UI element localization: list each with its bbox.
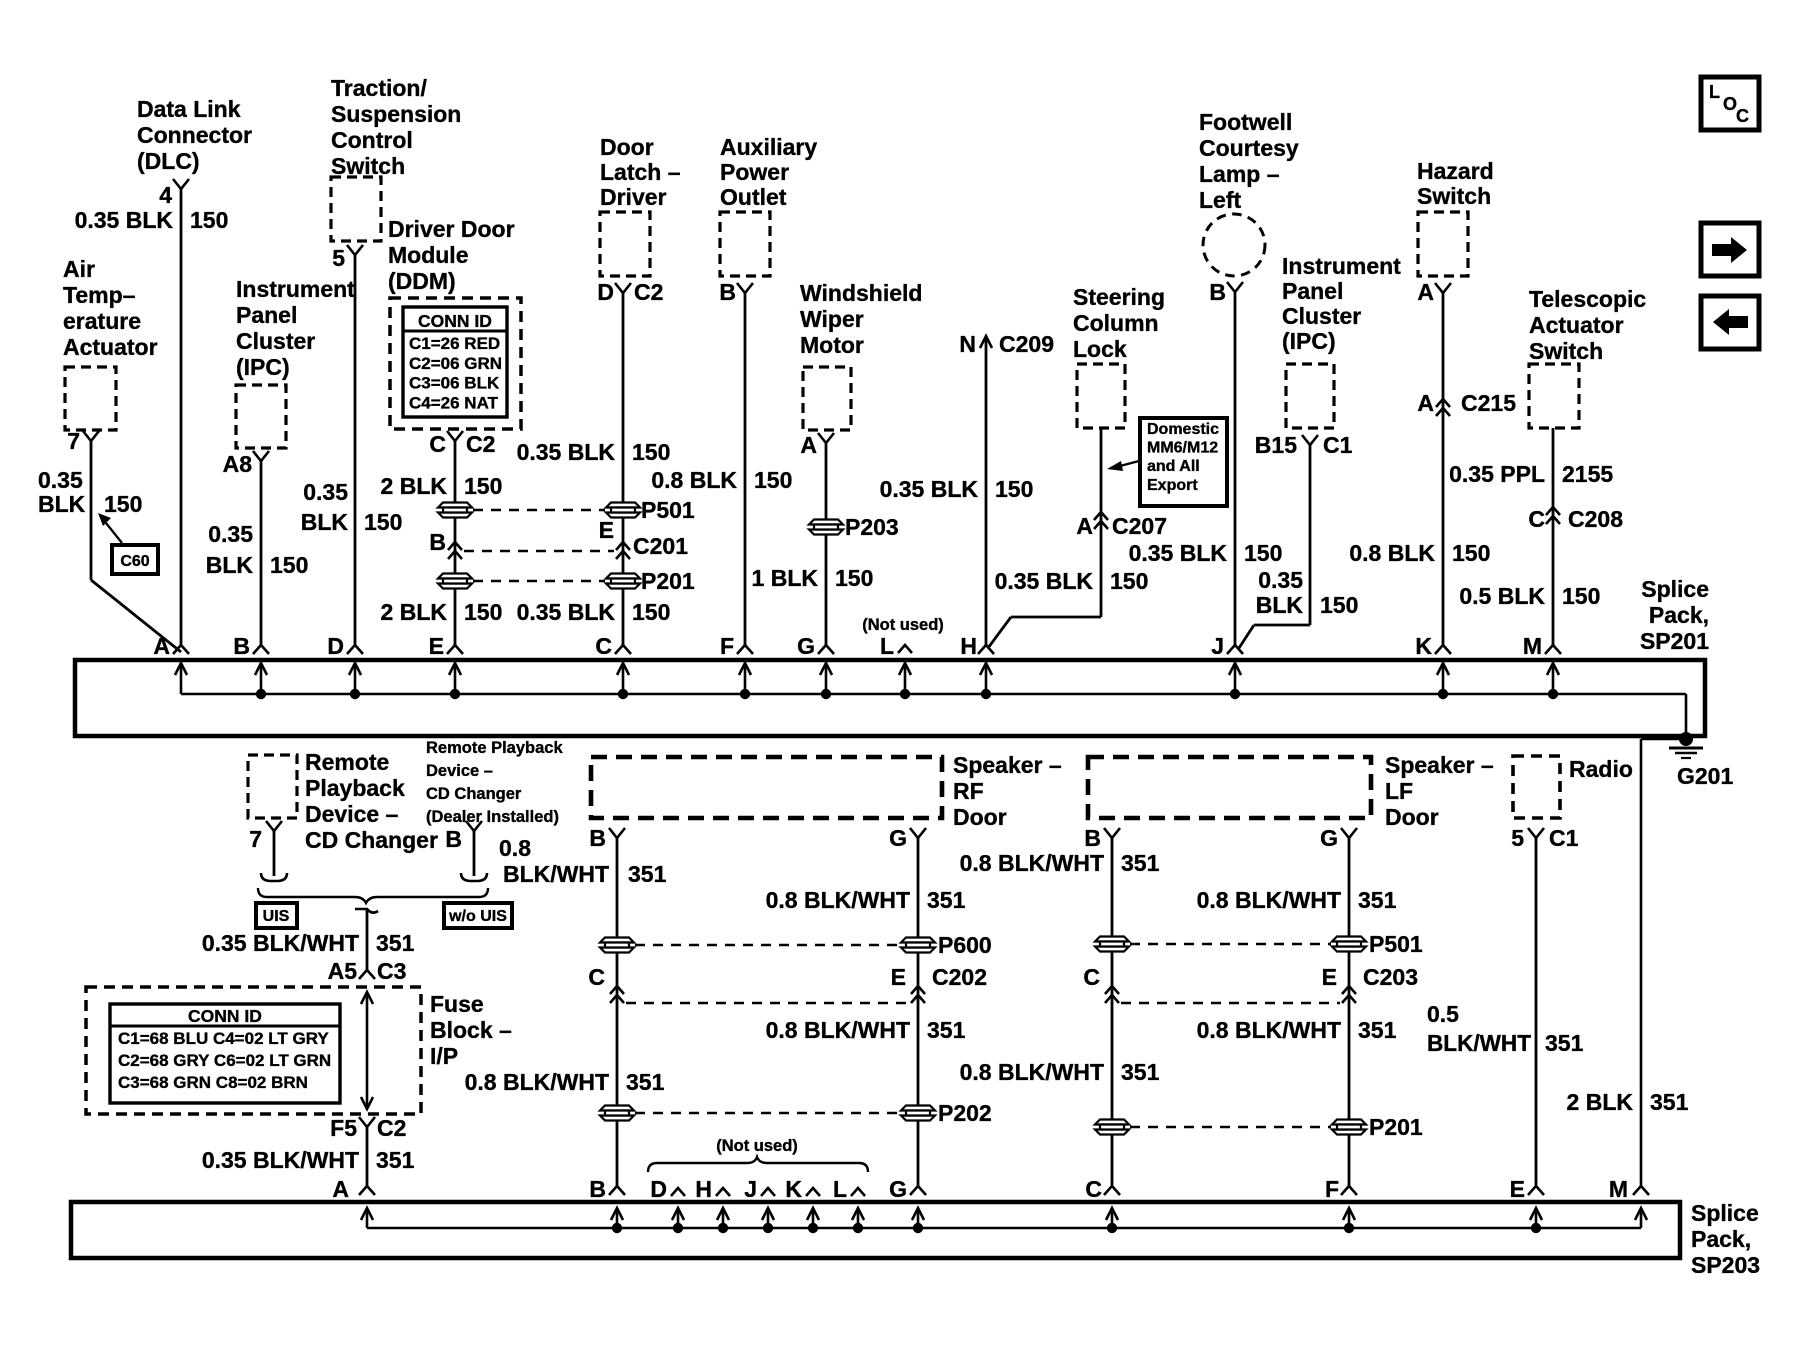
svg-text:Control: Control — [331, 127, 413, 153]
connector C207 pin A — [1094, 512, 1108, 520]
svg-text:C3=68 GRN C8=02 BRN: C3=68 GRN C8=02 BRN — [118, 1073, 308, 1092]
svg-text:D: D — [597, 279, 614, 305]
steering column lock box — [1077, 364, 1125, 428]
svg-text:Steering: Steering — [1073, 284, 1165, 310]
svg-text:G201: G201 — [1677, 763, 1733, 789]
svg-text:0.8 BLK/WHT: 0.8 BLK/WHT — [766, 887, 910, 913]
svg-text:351: 351 — [626, 1069, 665, 1095]
dashed pairing line P600 — [635, 944, 900, 946]
svg-text:0.35: 0.35 — [208, 521, 253, 547]
svg-text:351: 351 — [1121, 850, 1160, 876]
svg-text:0.35: 0.35 — [303, 479, 348, 505]
component: Speaker - RF Door box — [591, 757, 942, 818]
svg-text:5: 5 — [1511, 825, 1524, 851]
brace over not-used terminals — [648, 1157, 868, 1172]
svg-text:A: A — [153, 633, 170, 659]
svg-text:C201: C201 — [633, 533, 688, 559]
svg-text:150: 150 — [835, 565, 873, 591]
svg-text:5: 5 — [332, 245, 345, 271]
svg-text:C60: C60 — [120, 553, 149, 570]
svg-text:Door: Door — [953, 804, 1007, 830]
wire ckt351 to SP203-M — [1640, 739, 1643, 1186]
svg-text:351: 351 — [1358, 1017, 1397, 1043]
svg-text:Hazard: Hazard — [1417, 158, 1494, 184]
wire diagonal to node H — [988, 617, 1011, 648]
svg-text:150: 150 — [1110, 568, 1148, 594]
svg-text:Splice: Splice — [1691, 1200, 1759, 1226]
svg-text:Playback: Playback — [305, 775, 405, 801]
svg-text:RF: RF — [953, 778, 984, 804]
svg-text:0.35 BLK: 0.35 BLK — [75, 207, 174, 233]
dashed pairing line P202 — [635, 1112, 900, 1114]
svg-text:F: F — [1325, 1176, 1339, 1202]
svg-text:150: 150 — [190, 207, 228, 233]
pigtail terminal (w/o UIS) — [461, 873, 487, 881]
svg-text:Driver: Driver — [600, 184, 667, 210]
svg-text:(IPC): (IPC) — [1282, 328, 1336, 354]
svg-text:Temp–: Temp– — [63, 282, 136, 308]
telescopic actuator switch box — [1529, 364, 1579, 428]
svg-text:I/P: I/P — [430, 1043, 458, 1069]
svg-text:J: J — [744, 1176, 757, 1202]
grommet P600 right half — [901, 938, 935, 943]
connector C203 pin C — [1105, 986, 1119, 994]
svg-text:0.35: 0.35 — [1258, 567, 1303, 593]
svg-text:Actuator: Actuator — [1529, 312, 1624, 338]
svg-text:Latch –: Latch – — [600, 159, 681, 185]
wire cap below brace — [355, 909, 378, 913]
svg-text:Radio: Radio — [1569, 756, 1633, 782]
svg-text:B: B — [719, 279, 736, 305]
connector C60 callout box — [112, 545, 158, 574]
wire pigtail UIS — [273, 831, 276, 876]
dashed pairing line C203 — [1121, 1002, 1340, 1004]
svg-text:Speaker –: Speaker – — [1385, 752, 1494, 778]
svg-text:150: 150 — [632, 599, 670, 625]
footwell courtesy lamp circle — [1203, 214, 1265, 276]
wire ckt150 traction switch to SP201-D — [354, 255, 357, 645]
connector C201 left half pin B — [448, 542, 462, 550]
svg-text:0.8 BLK: 0.8 BLK — [1349, 540, 1435, 566]
grommet P501 right half — [606, 503, 640, 508]
svg-text:(IPC): (IPC) — [236, 354, 290, 380]
dashed pairing line C202 — [626, 1002, 909, 1004]
svg-text:150: 150 — [464, 599, 502, 625]
wire ckt351 LF speaker B to SP203-C — [1111, 838, 1114, 1186]
svg-text:E: E — [1322, 964, 1337, 990]
svg-text:C2: C2 — [466, 431, 495, 457]
svg-text:Instrument: Instrument — [1282, 253, 1401, 279]
wire ckt150 steering column lock — [1100, 428, 1103, 617]
svg-text:K: K — [1415, 633, 1432, 659]
svg-text:Panel: Panel — [236, 302, 297, 328]
svg-text:0.35 BLK: 0.35 BLK — [517, 599, 616, 625]
grommet P201 left half — [438, 574, 472, 579]
svg-text:C207: C207 — [1112, 513, 1167, 539]
dashed pairing line C201 — [464, 550, 614, 552]
svg-text:Auxiliary: Auxiliary — [720, 134, 817, 160]
svg-text:2 BLK: 2 BLK — [381, 473, 448, 499]
traction/suspension control switch box — [331, 177, 381, 241]
svg-text:M: M — [1523, 633, 1542, 659]
svg-text:B: B — [589, 1176, 606, 1202]
svg-text:Door: Door — [1385, 804, 1439, 830]
wire ckt351 LF speaker G to SP203-F — [1348, 838, 1351, 1186]
svg-text:G: G — [889, 1176, 907, 1202]
svg-text:Module: Module — [388, 242, 469, 268]
wire ckt150 aux power outlet to SP201-F — [744, 293, 747, 645]
svg-text:(Not used): (Not used) — [716, 1137, 798, 1155]
svg-text:0.8 BLK/WHT: 0.8 BLK/WHT — [465, 1069, 609, 1095]
svg-text:B15: B15 — [1255, 432, 1297, 458]
brace joining alternative pigtails — [258, 888, 488, 903]
component: Radio box — [1513, 756, 1560, 818]
svg-text:G: G — [889, 825, 907, 851]
svg-text:Switch: Switch — [331, 153, 405, 179]
connector C202 pin C — [610, 986, 624, 994]
wire jog horizontal — [1011, 616, 1101, 619]
svg-text:C209: C209 — [999, 331, 1054, 357]
svg-text:Actuator: Actuator — [63, 334, 158, 360]
svg-text:M: M — [1609, 1176, 1628, 1202]
IPC right box — [1286, 364, 1334, 428]
wire ckt150 wiper motor to SP201-G — [825, 443, 828, 645]
grommet P201 right half — [606, 574, 640, 579]
ground G201 — [1679, 732, 1693, 746]
svg-text:Remote: Remote — [305, 749, 389, 775]
svg-text:SP203: SP203 — [1691, 1252, 1760, 1278]
svg-text:A: A — [1076, 513, 1093, 539]
svg-text:L: L — [833, 1176, 847, 1202]
svg-text:C: C — [1085, 1176, 1102, 1202]
svg-text:0.8 BLK/WHT: 0.8 BLK/WHT — [960, 1059, 1104, 1085]
svg-text:C: C — [595, 633, 612, 659]
svg-text:0.8 BLK/WHT: 0.8 BLK/WHT — [1197, 887, 1341, 913]
SP203 internal bus wire — [367, 1227, 1641, 1230]
hazard switch box — [1418, 212, 1468, 276]
dashed pairing line P501 — [473, 509, 605, 511]
svg-text:and All: and All — [1147, 458, 1200, 475]
svg-text:150: 150 — [754, 467, 792, 493]
svg-text:Cluster: Cluster — [236, 328, 315, 354]
svg-text:150: 150 — [995, 476, 1033, 502]
wire ckt351 from G201 junction — [1641, 738, 1686, 741]
svg-text:Export: Export — [1147, 477, 1198, 494]
svg-text:(DDM): (DDM) — [388, 268, 456, 294]
svg-text:2 BLK: 2 BLK — [1567, 1089, 1634, 1115]
svg-text:150: 150 — [464, 473, 502, 499]
svg-text:H: H — [695, 1176, 712, 1202]
wire ckt2155/150 telescopic switch to SP201-M — [1552, 428, 1555, 645]
DDM box — [390, 298, 521, 429]
svg-text:0.35 PPL: 0.35 PPL — [1449, 461, 1545, 487]
svg-text:B: B — [1209, 279, 1226, 305]
svg-text:150: 150 — [104, 491, 142, 517]
wire ckt150 air temp actuator — [90, 441, 93, 580]
auxiliary power outlet box — [720, 212, 770, 276]
svg-text:0.35 BLK: 0.35 BLK — [1129, 540, 1228, 566]
wire ckt351 RF speaker B to SP203-B — [616, 838, 619, 1186]
remote playback device box — [248, 755, 297, 818]
svg-text:B: B — [233, 633, 250, 659]
svg-text:Lock: Lock — [1073, 336, 1127, 362]
svg-text:CONN ID: CONN ID — [418, 311, 492, 331]
svg-text:J: J — [1211, 633, 1224, 659]
wire ckt150 footwell lamp to SP201-J — [1234, 292, 1237, 645]
svg-text:351: 351 — [1358, 887, 1397, 913]
svg-text:MM6/M12: MM6/M12 — [1147, 440, 1218, 457]
svg-text:w/o UIS: w/o UIS — [448, 908, 507, 925]
svg-text:150: 150 — [1562, 583, 1600, 609]
svg-text:C2: C2 — [634, 279, 663, 305]
svg-text:Door: Door — [600, 134, 654, 160]
svg-text:C4=26 NAT: C4=26 NAT — [409, 393, 499, 412]
svg-text:Device –: Device – — [305, 801, 399, 827]
wire ckt351 fuse block to SP203-A — [366, 1127, 369, 1186]
svg-text:BLK/WHT: BLK/WHT — [503, 861, 609, 887]
svg-text:0.35 BLK/WHT: 0.35 BLK/WHT — [202, 930, 359, 956]
svg-text:150: 150 — [1452, 540, 1490, 566]
svg-text:BLK: BLK — [206, 552, 254, 578]
svg-text:150: 150 — [364, 509, 402, 535]
svg-text:C2: C2 — [377, 1115, 406, 1141]
svg-text:C3: C3 — [377, 958, 406, 984]
svg-text:Driver Door: Driver Door — [388, 216, 515, 242]
svg-text:B: B — [445, 826, 462, 852]
svg-text:O: O — [1723, 94, 1737, 114]
svg-text:C1=68 BLU C4=02 LT GRY: C1=68 BLU C4=02 LT GRY — [118, 1029, 329, 1048]
svg-text:K: K — [785, 1176, 802, 1202]
svg-text:351: 351 — [376, 930, 415, 956]
svg-text:P600: P600 — [938, 932, 992, 958]
svg-text:351: 351 — [1545, 1030, 1584, 1056]
grommet P501 left half — [1095, 937, 1129, 942]
svg-text:C1=26 RED: C1=26 RED — [409, 334, 500, 353]
svg-text:C202: C202 — [932, 964, 987, 990]
svg-text:150: 150 — [1244, 540, 1282, 566]
svg-text:E: E — [1510, 1176, 1525, 1202]
svg-text:0.35 BLK: 0.35 BLK — [880, 476, 979, 502]
svg-text:Column: Column — [1073, 310, 1159, 336]
windshield wiper motor box — [803, 367, 851, 430]
svg-text:Cluster: Cluster — [1282, 303, 1361, 329]
svg-text:P501: P501 — [641, 497, 695, 523]
svg-text:Switch: Switch — [1417, 183, 1491, 209]
svg-text:L: L — [1709, 82, 1720, 102]
DDM CONN ID table — [403, 307, 507, 417]
svg-text:7: 7 — [67, 428, 80, 454]
wire pigtail w/o UIS — [473, 831, 476, 876]
splice pack SP203 box — [71, 1202, 1680, 1258]
SP201 internal bus wire — [181, 693, 1686, 696]
wire ckt150 C209 to SP201-H — [985, 336, 988, 645]
svg-text:P202: P202 — [938, 1100, 992, 1126]
UIS callout box — [256, 903, 297, 928]
svg-text:UIS: UIS — [263, 908, 290, 925]
connector C203 pin E — [1342, 986, 1356, 994]
svg-text:A: A — [1417, 279, 1434, 305]
dashed pairing line P501 lower — [1130, 943, 1331, 945]
svg-text:G: G — [797, 633, 815, 659]
svg-text:2 BLK: 2 BLK — [381, 599, 448, 625]
svg-text:2155: 2155 — [1562, 461, 1613, 487]
Domestic MM6/M12 and All Export callout box — [1140, 418, 1227, 506]
svg-text:C203: C203 — [1363, 964, 1418, 990]
air temperature actuator box — [65, 367, 116, 430]
svg-text:Traction/: Traction/ — [331, 75, 427, 101]
svg-text:Data Link: Data Link — [137, 96, 241, 122]
svg-text:LF: LF — [1385, 778, 1413, 804]
svg-text:150: 150 — [270, 552, 308, 578]
svg-text:0.35 BLK: 0.35 BLK — [517, 439, 616, 465]
svg-text:B: B — [429, 529, 446, 555]
arrow from Domestic box to wire — [1120, 461, 1139, 466]
wire ckt150 DLC to SP201-A — [180, 189, 183, 645]
svg-text:G: G — [1320, 825, 1338, 851]
svg-text:Fuse: Fuse — [430, 991, 484, 1017]
svg-text:(DLC): (DLC) — [137, 148, 200, 174]
wire ckt351 radio to SP203-E — [1535, 838, 1538, 1186]
svg-text:Windshield: Windshield — [800, 280, 922, 306]
svg-text:P201: P201 — [1369, 1114, 1423, 1140]
svg-text:150: 150 — [632, 439, 670, 465]
wire diagonal to node J — [1239, 625, 1254, 648]
svg-text:C1: C1 — [1323, 432, 1353, 458]
svg-text:C: C — [1083, 964, 1100, 990]
svg-text:B: B — [589, 825, 606, 851]
grommet P600 left half — [600, 938, 634, 943]
svg-text:Lamp –: Lamp – — [1199, 161, 1280, 187]
svg-text:351: 351 — [628, 861, 667, 887]
svg-text:0.8: 0.8 — [499, 835, 531, 861]
svg-text:P203: P203 — [845, 514, 899, 540]
dashed pairing line P201 — [473, 580, 605, 582]
grommet P201 left half lower — [1095, 1120, 1129, 1125]
svg-text:F: F — [720, 633, 734, 659]
svg-text:Left: Left — [1199, 187, 1242, 213]
svg-text:351: 351 — [376, 1147, 415, 1173]
grommet P501 right half lower — [1332, 937, 1366, 942]
svg-text:Instrument: Instrument — [236, 276, 355, 302]
svg-text:A5: A5 — [328, 958, 358, 984]
grommet P203 — [809, 520, 843, 525]
wire ckt351 to fuse block A5 — [366, 909, 369, 972]
svg-text:C: C — [588, 964, 605, 990]
grommet P202 left half — [600, 1106, 634, 1111]
door latch driver box — [600, 212, 650, 276]
IPC left box — [236, 385, 286, 448]
dashed pairing line P201 lower — [1130, 1126, 1331, 1128]
svg-text:P201: P201 — [641, 568, 695, 594]
svg-text:A: A — [800, 432, 817, 458]
svg-text:C: C — [1528, 506, 1545, 532]
svg-text:C: C — [429, 431, 446, 457]
svg-text:0.8 BLK: 0.8 BLK — [651, 467, 737, 493]
svg-text:CONN ID: CONN ID — [188, 1006, 262, 1026]
svg-text:Pack,: Pack, — [1691, 1226, 1751, 1252]
component: Speaker - LF Door box — [1088, 757, 1371, 818]
wire jog horizontal — [1254, 624, 1310, 627]
svg-text:Motor: Motor — [800, 332, 864, 358]
previous-page arrow icon — [1701, 296, 1759, 349]
wire ckt150 IPC right — [1309, 445, 1312, 625]
svg-text:SP201: SP201 — [1640, 628, 1709, 654]
wire ckt150 IPC to SP201-B — [260, 461, 263, 645]
svg-text:BLK: BLK — [301, 509, 349, 535]
svg-text:C208: C208 — [1568, 506, 1623, 532]
pigtail terminal (UIS) — [261, 873, 287, 881]
svg-text:0.5: 0.5 — [1427, 1001, 1459, 1027]
svg-text:Pack,: Pack, — [1649, 602, 1709, 628]
svg-text:Outlet: Outlet — [720, 184, 787, 210]
svg-text:Block –: Block – — [430, 1017, 512, 1043]
grommet P202 right half — [901, 1106, 935, 1111]
svg-text:C2=06 GRN: C2=06 GRN — [409, 354, 502, 373]
svg-text:0.8 BLK/WHT: 0.8 BLK/WHT — [766, 1017, 910, 1043]
svg-text:BLK: BLK — [38, 491, 86, 517]
LOC page icon box — [1701, 77, 1759, 130]
svg-text:N: N — [959, 331, 976, 357]
svg-text:P501: P501 — [1369, 931, 1423, 957]
svg-text:Telescopic: Telescopic — [1529, 286, 1646, 312]
connector C201 right half pin E — [616, 542, 630, 550]
wire ckt150 hazard switch to SP201-K — [1442, 293, 1445, 645]
svg-text:BLK: BLK — [1256, 592, 1304, 618]
svg-text:A8: A8 — [223, 451, 253, 477]
svg-text:Remote Playback: Remote Playback — [426, 739, 563, 757]
svg-text:351: 351 — [1121, 1059, 1160, 1085]
svg-text:Air: Air — [63, 256, 95, 282]
svg-text:0.8 BLK/WHT: 0.8 BLK/WHT — [1197, 1017, 1341, 1043]
svg-text:351: 351 — [927, 1017, 966, 1043]
svg-text:C1: C1 — [1549, 825, 1579, 851]
svg-text:erature: erature — [63, 308, 141, 334]
arrow from C60 to wire — [106, 523, 122, 543]
svg-text:Panel: Panel — [1282, 278, 1343, 304]
svg-text:H: H — [960, 633, 977, 659]
splice pack SP201 box — [75, 660, 1705, 736]
wire ckt351 RF speaker G to SP203-G — [917, 838, 920, 1186]
svg-text:Device –: Device – — [426, 762, 493, 780]
svg-text:D: D — [650, 1176, 667, 1202]
connector C215 pin A — [1436, 399, 1450, 407]
w/o UIS callout box — [444, 903, 512, 928]
wire diagonal to node A — [91, 580, 181, 652]
grommet P501 left half — [438, 503, 472, 508]
svg-text:B: B — [1084, 825, 1101, 851]
svg-text:Footwell: Footwell — [1199, 109, 1292, 135]
connector C208 pin C — [1546, 507, 1560, 515]
svg-text:0.35: 0.35 — [38, 467, 83, 493]
svg-text:351: 351 — [1650, 1089, 1689, 1115]
svg-text:Power: Power — [720, 159, 789, 185]
svg-text:Courtesy: Courtesy — [1199, 135, 1299, 161]
grommet P201 right half lower — [1332, 1120, 1366, 1125]
svg-text:1 BLK: 1 BLK — [752, 565, 819, 591]
svg-text:7: 7 — [249, 826, 262, 852]
svg-text:L: L — [880, 633, 894, 659]
svg-text:351: 351 — [927, 887, 966, 913]
svg-text:C3=06 BLK: C3=06 BLK — [409, 374, 500, 393]
svg-text:E: E — [891, 964, 906, 990]
svg-text:F5: F5 — [330, 1115, 357, 1141]
svg-text:150: 150 — [1320, 592, 1358, 618]
svg-text:CD Changer: CD Changer — [426, 785, 522, 803]
svg-text:0.35 BLK/WHT: 0.35 BLK/WHT — [202, 1147, 359, 1173]
fuse block internal pass-through arrow — [366, 992, 369, 1109]
svg-text:(Dealer Installed): (Dealer Installed) — [426, 808, 559, 826]
svg-text:Connector: Connector — [137, 122, 252, 148]
